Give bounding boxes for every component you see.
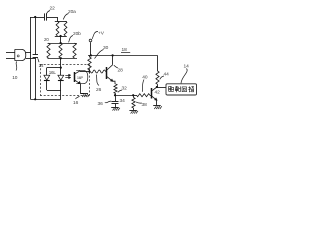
svg-text:24: 24	[39, 63, 44, 68]
svg-text:28: 28	[118, 68, 124, 74]
svg-text:+V: +V	[98, 31, 105, 37]
svg-text:26: 26	[96, 87, 102, 93]
svg-text:40: 40	[142, 75, 148, 81]
svg-text:42: 42	[155, 90, 161, 96]
svg-text:32: 32	[122, 86, 128, 92]
svg-text:16: 16	[73, 100, 79, 106]
svg-text:16P: 16P	[77, 75, 84, 80]
svg-text:38: 38	[142, 102, 148, 108]
svg-text:10: 10	[12, 75, 18, 81]
svg-text:20: 20	[44, 37, 49, 42]
svg-text:20b: 20b	[73, 31, 81, 37]
svg-text:14: 14	[184, 64, 190, 70]
svg-text:44: 44	[164, 72, 170, 78]
svg-text:34: 34	[120, 98, 126, 104]
svg-text:36: 36	[98, 101, 104, 107]
svg-text:20a: 20a	[68, 9, 76, 15]
svg-text:16L: 16L	[49, 70, 57, 75]
svg-text:18: 18	[122, 47, 128, 53]
svg-text:22: 22	[50, 6, 56, 12]
svg-text:30: 30	[103, 45, 109, 51]
